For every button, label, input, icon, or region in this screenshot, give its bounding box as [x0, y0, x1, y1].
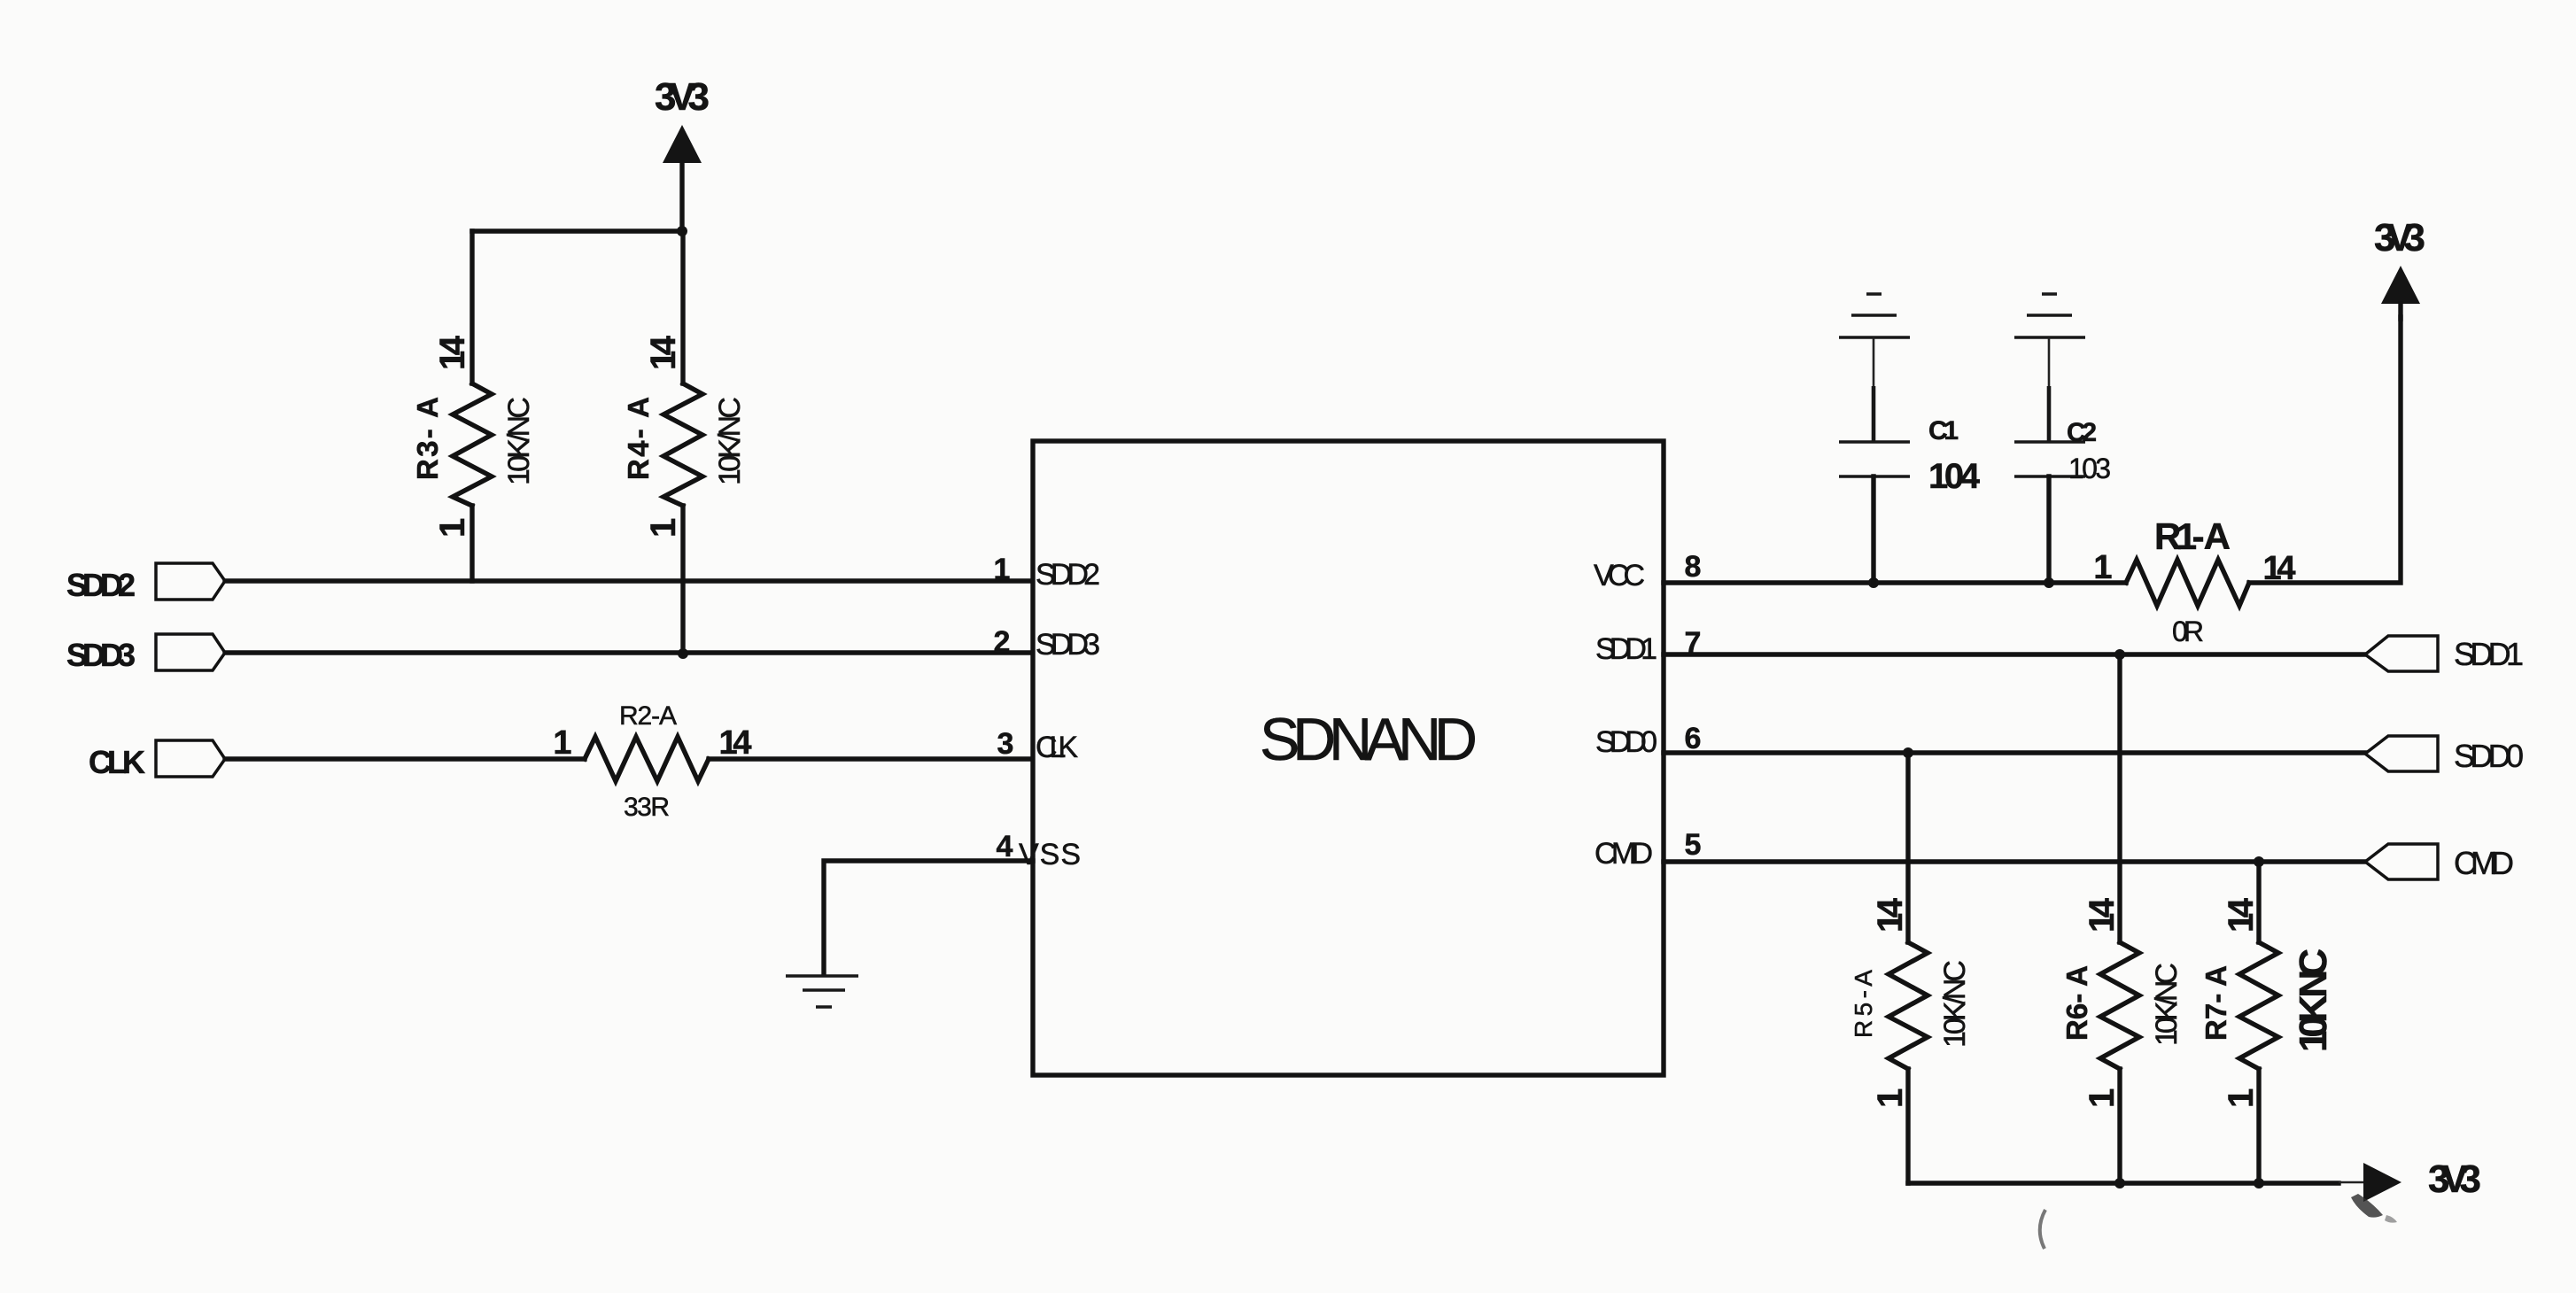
node R4 to SDD3 junction — [678, 648, 688, 659]
power 3V3 top-right label — [2374, 216, 2425, 259]
capacitor C1 — [1839, 294, 1981, 583]
connector SDD0 — [2365, 736, 2524, 774]
pin 8 label VCC — [1594, 550, 1701, 592]
svg-text:3V3: 3V3 — [2428, 1158, 2481, 1201]
svg-text:103: 103 — [2068, 453, 2111, 484]
svg-text:5: 5 — [1685, 828, 1702, 862]
smudge artifact under arrow — [2351, 1194, 2397, 1223]
pin 7 label SDD1 — [1595, 626, 1701, 666]
svg-text:10K/NC: 10K/NC — [1938, 960, 1972, 1048]
pin 4 label VSS — [997, 830, 1081, 871]
wire VSS — [824, 861, 1033, 972]
pin 3 label CLK — [997, 727, 1079, 764]
power 3V3 top-right arrow — [2381, 266, 2420, 319]
svg-text:3: 3 — [997, 727, 1014, 761]
svg-text:SDD0: SDD0 — [2454, 738, 2524, 774]
svg-text:R7- A: R7- A — [2200, 965, 2232, 1041]
node R6 top junction — [2114, 649, 2125, 660]
svg-text:104: 104 — [1928, 457, 1981, 496]
wire SDD3 net — [225, 650, 1033, 654]
svg-text:14: 14 — [2083, 897, 2122, 933]
resistor R6 — [2060, 654, 2184, 1183]
svg-text:1: 1 — [2093, 549, 2112, 586]
svg-text:1: 1 — [2083, 1088, 2122, 1108]
connector SDD1 — [2365, 636, 2524, 672]
svg-text:CLK: CLK — [89, 744, 145, 780]
wire VCC net — [1664, 317, 2401, 583]
connector SDD2 — [66, 563, 225, 603]
svg-text:0R: 0R — [2172, 616, 2204, 647]
wire CLK right segment — [709, 756, 1033, 761]
svg-text:1: 1 — [433, 518, 472, 538]
svg-text:SDD3: SDD3 — [1036, 628, 1100, 662]
node R5 top junction — [1903, 747, 1913, 758]
pin 6 label SDD0 — [1595, 722, 1701, 759]
power 3V3 bottom-right label — [2428, 1158, 2481, 1201]
pin 2 label SDD3 — [994, 625, 1100, 662]
svg-text:1: 1 — [553, 724, 571, 762]
svg-text:14: 14 — [2222, 897, 2261, 933]
resistor R2 — [553, 701, 751, 822]
svg-text:14: 14 — [2263, 550, 2296, 587]
svg-text:SDD1: SDD1 — [2454, 636, 2524, 672]
wire CMD net — [1664, 859, 2365, 863]
svg-text:14: 14 — [644, 335, 683, 370]
svg-text:10K/NC: 10K/NC — [502, 397, 536, 485]
power 3V3 top-left label — [655, 75, 710, 119]
svg-text:SDD3: SDD3 — [66, 637, 136, 673]
svg-text:33R: 33R — [624, 793, 670, 822]
svg-text:VSS: VSS — [1019, 838, 1081, 871]
svg-text:CLK: CLK — [1036, 731, 1078, 764]
wire CLK left segment — [225, 756, 585, 761]
paren artifact — [2040, 1210, 2045, 1249]
svg-text:CMD: CMD — [2454, 845, 2514, 881]
power 3V3 bottom-right arrow — [2363, 1163, 2401, 1202]
svg-text:1: 1 — [2222, 1088, 2261, 1108]
resistor R3 — [411, 231, 536, 581]
svg-text:1: 1 — [1871, 1088, 1910, 1108]
svg-text:VCC: VCC — [1594, 559, 1645, 592]
power 3V3 top-left arrow — [663, 125, 702, 231]
wire SDD0 net — [1664, 750, 2365, 755]
wire bottom 3V3 rail — [1908, 1182, 2363, 1183]
svg-text:R6- A: R6- A — [2060, 965, 2093, 1041]
connector CLK — [89, 740, 225, 780]
node R6 bottom junction — [2114, 1178, 2125, 1188]
node C1 junction — [1868, 577, 1879, 588]
svg-text:1: 1 — [644, 518, 683, 538]
resistor R1 — [2093, 515, 2295, 647]
ground — [786, 976, 858, 1007]
resistor R7 — [2200, 862, 2335, 1183]
pin 5 label CMD — [1594, 828, 1701, 871]
op-amp U1 SDNAND chip body — [1033, 441, 1664, 1075]
wire top bus R3/R4 to 3V3 — [472, 228, 682, 233]
svg-text:C1: C1 — [1928, 416, 1959, 445]
capacitor C2 — [2014, 294, 2111, 583]
svg-text:R3- A: R3- A — [411, 397, 444, 480]
svg-text:C2: C2 — [2067, 418, 2097, 447]
svg-text:14: 14 — [433, 335, 472, 370]
svg-text:10K NC: 10K NC — [2292, 948, 2335, 1052]
svg-text:R4- A: R4- A — [622, 397, 655, 480]
svg-text:R5-A: R5-A — [1850, 970, 1877, 1038]
svg-text:SDNAND: SDNAND — [1260, 706, 1478, 773]
connector CMD — [2365, 844, 2514, 881]
svg-text:2: 2 — [994, 625, 1011, 659]
svg-text:R1- A: R1- A — [2154, 515, 2231, 557]
svg-text:SDD2: SDD2 — [66, 567, 136, 603]
node junction top bus — [677, 226, 687, 236]
svg-text:14: 14 — [719, 724, 752, 762]
node C2 junction — [2044, 577, 2054, 588]
wire SDD1 net — [1664, 652, 2365, 656]
svg-text:8: 8 — [1685, 550, 1702, 584]
connector SDD3 — [66, 634, 225, 673]
svg-text:CMD: CMD — [1594, 837, 1653, 871]
node R7 top junction — [2254, 856, 2264, 867]
svg-text:14: 14 — [1871, 897, 1910, 933]
wire SDD2 net — [225, 578, 1033, 583]
svg-text:10K/NC: 10K/NC — [2150, 963, 2184, 1046]
svg-text:3V3: 3V3 — [655, 75, 710, 119]
svg-text:SDD2: SDD2 — [1036, 558, 1100, 592]
svg-text:10K/NC: 10K/NC — [713, 397, 747, 485]
pin 1 label SDD2 — [994, 553, 1100, 592]
svg-text:SDD0: SDD0 — [1595, 725, 1657, 759]
node R7 bottom junction — [2254, 1178, 2264, 1188]
svg-text:1: 1 — [994, 553, 1011, 586]
resistor R5 — [1850, 753, 1972, 1183]
resistor R4 — [622, 231, 747, 654]
svg-text:SDD1: SDD1 — [1595, 632, 1657, 666]
svg-text:3V3: 3V3 — [2374, 216, 2425, 259]
svg-text:R2-A: R2-A — [619, 701, 677, 731]
